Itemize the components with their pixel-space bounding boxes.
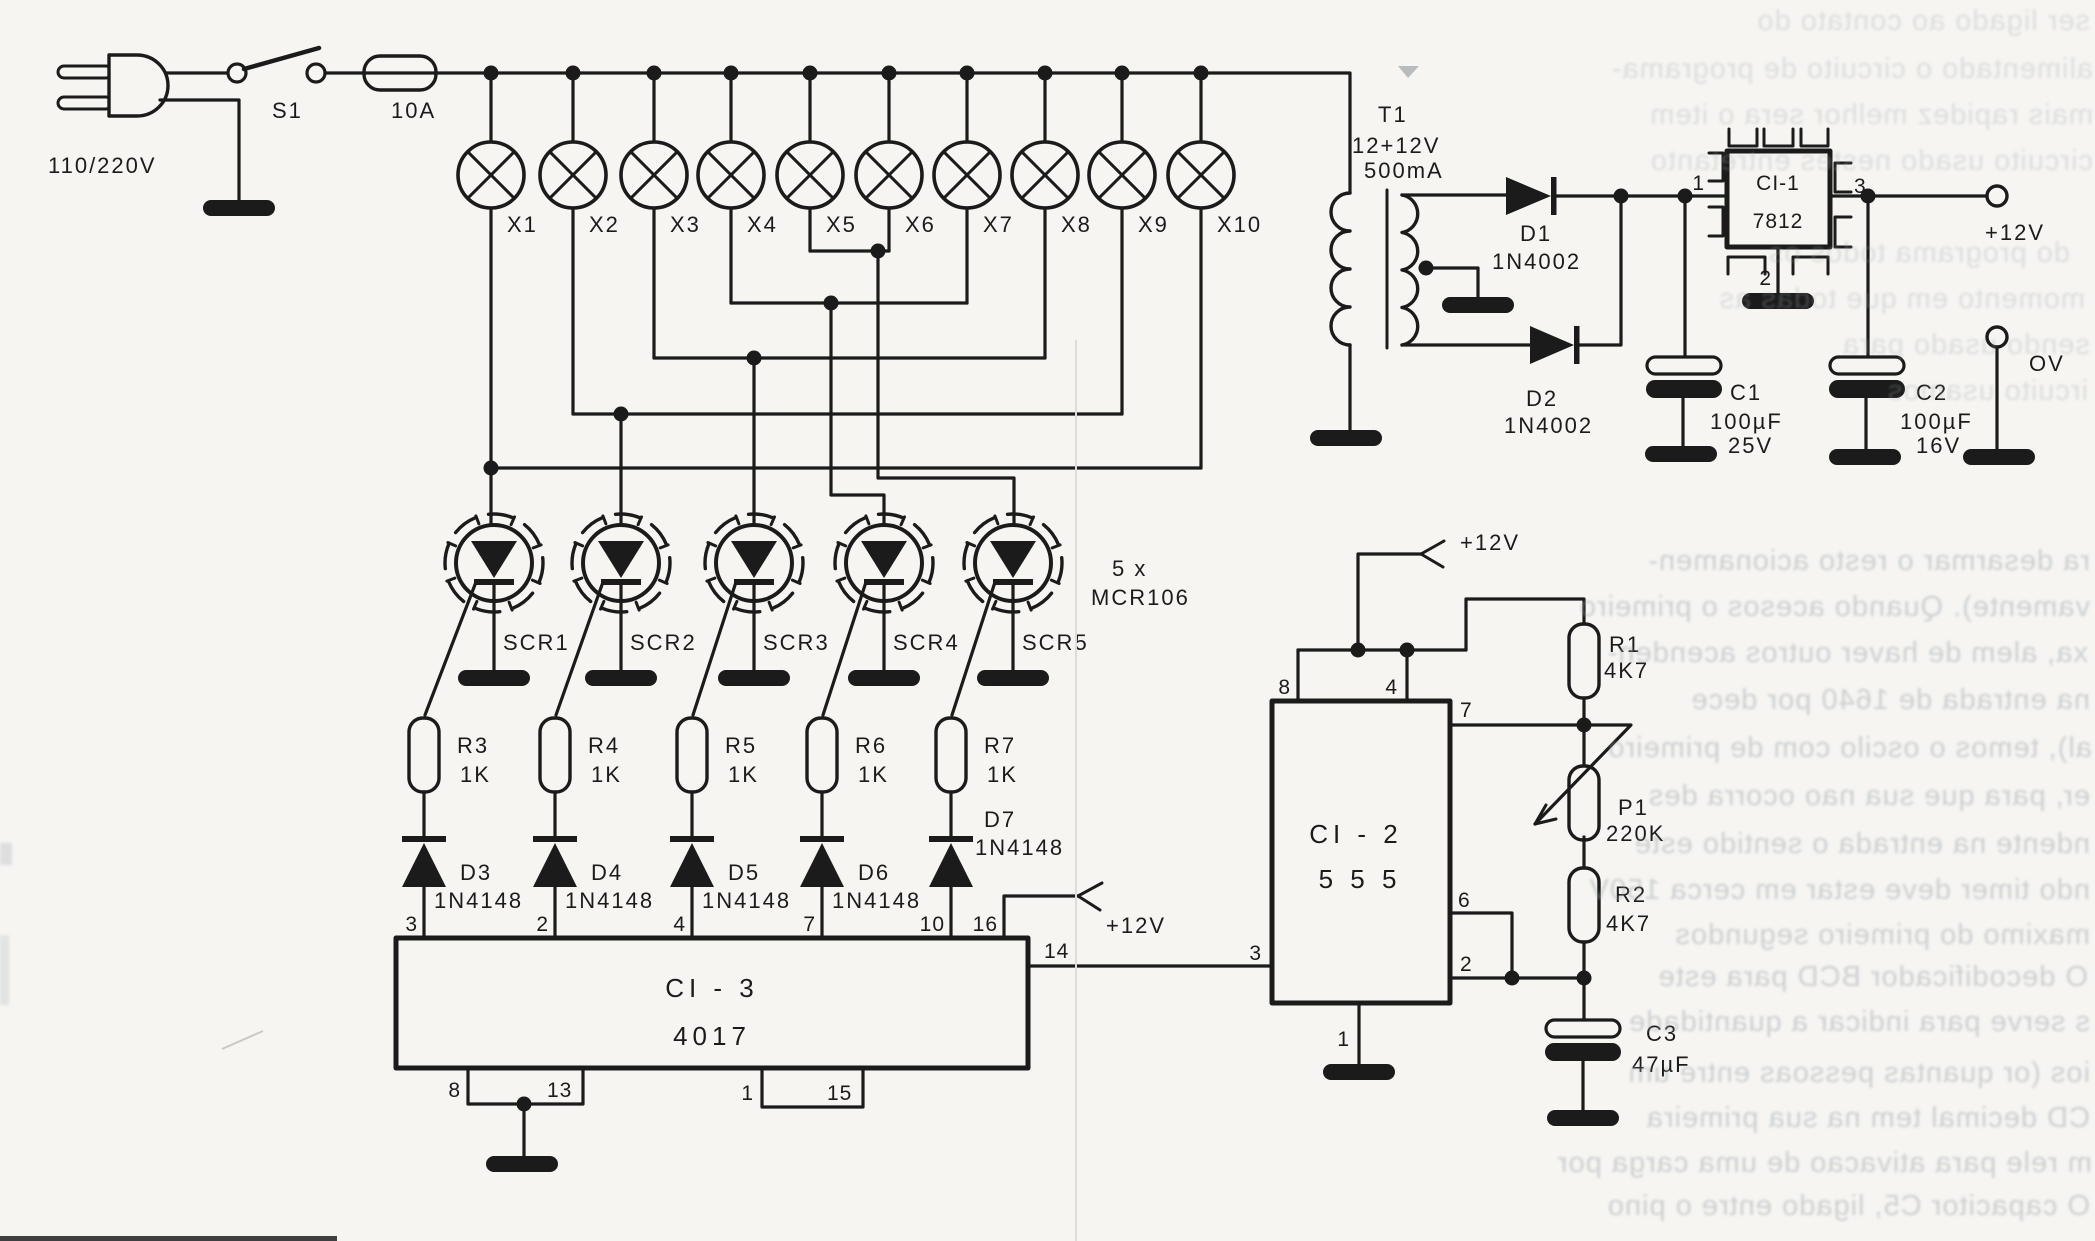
svg-text:1N4148: 1N4148 <box>702 888 791 913</box>
wire: 555 supply rail <box>1298 648 1466 651</box>
IC CI-1 7812 regulator <box>1727 151 1830 247</box>
svg-text:1N4148: 1N4148 <box>975 835 1064 860</box>
scan artifact: bottom page edge <box>0 1236 337 1241</box>
svg-text:1: 1 <box>741 1082 754 1105</box>
node: pin 6 to pin 2 junction <box>1505 971 1520 986</box>
wire: 555 pin 6 <box>1450 913 1512 978</box>
wire: R2 to C3 <box>1582 942 1585 1020</box>
transformer T1 secondary winding <box>1402 195 1418 345</box>
wire: D2 cathode up to rectified rail <box>1579 196 1621 345</box>
svg-text:O decodificador BCD para este: O decodificador BCD para este <box>1658 961 2088 993</box>
wire: bus to lamp X8 <box>1043 73 1046 142</box>
wire: X5/X6 pair bus <box>810 249 889 252</box>
wire: SCR3 gate to R5 <box>693 582 736 715</box>
svg-text:MCR106: MCR106 <box>1091 585 1190 610</box>
diode D5 1N4148 <box>670 836 714 887</box>
wire: X9 down <box>1120 208 1123 414</box>
node: pin 2/6 junction at R2-C3 <box>1577 971 1592 986</box>
wire: X2 down <box>571 208 574 414</box>
node: rectifier output junction <box>1614 189 1629 204</box>
wire: secondary bottom to D2 <box>1402 343 1530 346</box>
lamp X9 <box>1089 142 1155 208</box>
wire: bus to lamp X1 <box>489 73 492 142</box>
svg-text:+12V: +12V <box>1460 530 1520 555</box>
svg-text:SCR2: SCR2 <box>630 630 697 655</box>
lamp X2 <box>540 142 606 208</box>
ground under SCR1 <box>458 670 530 686</box>
svg-text:CD decimal tem na sua primeir: CD decimal tem na sua primeira <box>1646 1102 2090 1134</box>
wire: X10 down <box>1199 208 1202 468</box>
node: bus junction for lamp X1 <box>484 66 499 81</box>
svg-text:R4: R4 <box>588 733 620 758</box>
+12V arrow (pin 16 supply) <box>1078 883 1102 896</box>
ground under SCR5 <box>977 670 1049 686</box>
wire: CI-3 pin 14 to CI-2 pin 3 <box>1028 964 1272 967</box>
wire: center tap to ground <box>1420 268 1478 297</box>
wire: X2/X9 drop to SCR2 <box>619 414 622 540</box>
svg-text:14: 14 <box>1044 940 1069 963</box>
node: C1 junction <box>1678 189 1693 204</box>
node: bus junction for lamp X2 <box>566 66 581 81</box>
lamp X7 <box>934 142 1000 208</box>
svg-text:vamente). Quando acesos o prim: vamente). Quando acesos o primeiro <box>1579 591 2090 623</box>
wire plug neutral to ground <box>160 100 239 200</box>
wire: X4/X7 pair bus <box>731 301 967 304</box>
svg-text:D3: D3 <box>460 860 492 885</box>
svg-text:ircuito usamos: ircuito usamos <box>1887 375 2088 407</box>
svg-text:X3: X3 <box>670 212 701 237</box>
diode D3 1N4148 <box>402 836 446 887</box>
node: bus junction for lamp X4 <box>724 66 739 81</box>
thyristor SCR3 (MCR106) <box>705 514 803 612</box>
wire: D7 to CI-3 pin 10 <box>949 887 952 938</box>
P1 wiper arm <box>1535 725 1631 824</box>
ground under SCR2 <box>585 670 657 686</box>
svg-text:100µF: 100µF <box>1710 409 1783 434</box>
svg-text:xa, alem de haver outros acend: xa, alem de haver outros acenden- <box>1607 637 2088 669</box>
wire: junction to ground <box>522 1104 525 1156</box>
ground under CI-3 <box>486 1156 558 1172</box>
svg-text:1K: 1K <box>728 762 759 787</box>
svg-text:R5: R5 <box>725 733 757 758</box>
svg-text:3: 3 <box>405 913 418 936</box>
wire: bus to lamp X2 <box>571 73 574 142</box>
lamp X4 <box>698 142 764 208</box>
svg-text:5 5 5: 5 5 5 <box>1319 864 1402 894</box>
svg-text:maximo do primeiro segundos: maximo do primeiro segundos <box>1675 919 2090 951</box>
wire: SCR1 gate to R3 <box>425 582 476 715</box>
wire: SCR4 cathode to ground <box>882 584 885 670</box>
wire: 555 pin 7 <box>1450 723 1584 726</box>
wire plug to switch <box>166 71 228 74</box>
wire: bus to lamp X10 <box>1199 73 1202 142</box>
wire: 0V terminal to ground <box>1995 347 1998 449</box>
wire: X1 down to SCR1 anode line <box>489 208 492 540</box>
node: X3/X8 junction <box>747 351 762 366</box>
diode D6 1N4148 <box>800 836 844 887</box>
svg-text:100µF: 100µF <box>1900 409 1973 434</box>
svg-text:4017: 4017 <box>673 1021 751 1051</box>
wire: X8 down <box>1043 208 1046 358</box>
ground under C1 <box>1645 446 1717 462</box>
wire: X4/X7 drop to SCR4 <box>831 303 884 540</box>
wire: +12V rail to C2 <box>1866 196 1869 357</box>
wire: bus to lamp X9 <box>1120 73 1123 142</box>
svg-text:R6: R6 <box>855 733 887 758</box>
node: bus junction for lamp X6 <box>882 66 897 81</box>
node: X1/X10 junction <box>484 461 499 476</box>
scan artifact: gray arrow blot above T1 <box>1398 66 1419 78</box>
wire: SCR2 gate to R4 <box>556 582 603 715</box>
svg-text:D7: D7 <box>984 807 1016 832</box>
wire: D4 to CI-3 pin 2 <box>553 887 556 938</box>
svg-text:D4: D4 <box>591 860 623 885</box>
wire: 555 pin 1 to ground <box>1357 1003 1360 1064</box>
svg-text:D1: D1 <box>1520 221 1552 246</box>
node: bus junction for lamp X3 <box>647 66 662 81</box>
svg-text:4: 4 <box>1385 676 1398 699</box>
svg-text:1N4148: 1N4148 <box>832 888 921 913</box>
wire: R3 to D3 <box>422 792 425 837</box>
wire: C3 to ground <box>1581 1061 1584 1110</box>
svg-text:500mA: 500mA <box>1364 158 1444 183</box>
node: C2 junction <box>1861 189 1876 204</box>
svg-text:8: 8 <box>448 1079 461 1102</box>
P1 wiper arrowhead <box>1535 819 1556 824</box>
svg-text:1N4002: 1N4002 <box>1492 249 1581 274</box>
svg-text:ios (or quantas pessoas entre: ios (or quantas pessoas entre um <box>1628 1057 2090 1089</box>
svg-text:10: 10 <box>920 913 945 936</box>
svg-text:7: 7 <box>803 913 816 936</box>
lamp X6 <box>856 142 922 208</box>
wire: X5/X6 drop to SCR5 <box>878 251 1014 540</box>
svg-text:25V: 25V <box>1728 433 1773 458</box>
svg-text:7812: 7812 <box>1753 210 1804 233</box>
0V output terminal <box>1987 327 2007 347</box>
wire: bus to lamp X4 <box>729 73 732 142</box>
package bracket marks around CI-1 <box>1729 129 1757 146</box>
wire: bus to lamp X6 <box>887 73 890 142</box>
IC CI-2 555 timer <box>1272 701 1450 1003</box>
ground under SCR3 <box>718 670 790 686</box>
svg-text:s serve para indicar a quant: s serve para indicar a quantidade <box>1628 1006 2090 1038</box>
lamp X1 <box>458 142 524 208</box>
wire: bus to lamp X3 <box>652 73 655 142</box>
svg-text:alimentado o circuito de progr: alimentado o circuito de programa- <box>1611 53 2093 85</box>
wire: primary bottom to ground <box>1348 345 1351 430</box>
node: bus junction for lamp X5 <box>803 66 818 81</box>
wire: R5 to D5 <box>690 792 693 837</box>
svg-text:circuito usado nestes entret: circuito usado nestes entretanto <box>1650 145 2093 177</box>
scan artifact: faint scratch <box>222 1031 263 1049</box>
wire switch to fuse <box>325 71 366 74</box>
wire: CI-1 pin 2 to ground <box>1776 247 1779 293</box>
node: +12V feed junction <box>1351 643 1366 658</box>
wire: SCR2 cathode to ground <box>619 584 622 670</box>
svg-text:X5: X5 <box>826 212 857 237</box>
svg-text:110/220V: 110/220V <box>48 153 157 178</box>
svg-text:1K: 1K <box>591 762 622 787</box>
wire: D1 cathode to regulator input <box>1556 194 1727 197</box>
svg-text:mais rapidez melhor sera o i: mais rapidez melhor sera o item <box>1649 99 2093 131</box>
svg-text:X7: X7 <box>983 212 1014 237</box>
svg-text:T1: T1 <box>1378 102 1408 127</box>
svg-text:CI - 2: CI - 2 <box>1309 819 1403 849</box>
svg-text:S1: S1 <box>272 98 303 123</box>
wire: R6 to D6 <box>820 792 823 837</box>
svg-text:X8: X8 <box>1061 212 1092 237</box>
wire: secondary top to D1 <box>1402 193 1506 196</box>
wire: rail to C1 <box>1683 196 1686 357</box>
node: pin 4 junction <box>1400 643 1415 658</box>
svg-text:X10: X10 <box>1217 212 1262 237</box>
wire: R7 to D7 <box>949 792 952 837</box>
svg-text:SCR3: SCR3 <box>763 630 830 655</box>
node: X5/X6 junction <box>871 244 886 259</box>
svg-text:1N4148: 1N4148 <box>565 888 654 913</box>
wire: X3 down <box>652 208 655 358</box>
svg-text:C1: C1 <box>1730 380 1762 405</box>
svg-text:5 x: 5 x <box>1112 556 1147 581</box>
svg-text:15: 15 <box>827 1082 852 1105</box>
wire: X3/X8 drop to SCR3 <box>752 358 755 540</box>
node: X4/X7 junction <box>824 296 839 311</box>
wire: C1 to ground <box>1681 398 1684 446</box>
wire: X6 down <box>887 208 890 251</box>
node: bus junction for lamp X8 <box>1038 66 1053 81</box>
node: pin 7 junction <box>1577 718 1592 733</box>
lamp X8 <box>1012 142 1078 208</box>
svg-text:D5: D5 <box>728 860 760 885</box>
wire: 555 pin 8 up <box>1296 650 1299 701</box>
svg-text:na entrada de 1640 por d: na entrada de 1640 por dece <box>1691 684 2090 716</box>
svg-text:1K: 1K <box>460 762 491 787</box>
node: bus junction for lamp X10 <box>1194 66 1209 81</box>
wire: +12V arrow feed for 555 <box>1358 554 1421 650</box>
wire: SCR5 cathode to ground <box>1011 584 1014 670</box>
svg-text:X4: X4 <box>747 212 778 237</box>
ground under transformer <box>1310 430 1382 446</box>
resistor R4 1K <box>540 718 570 792</box>
svg-text:D2: D2 <box>1526 386 1558 411</box>
wire: SCR1 cathode to ground <box>492 584 495 670</box>
svg-text:CI - 3: CI - 3 <box>665 973 759 1003</box>
wire: X1/X10 pair bus <box>491 466 1201 469</box>
svg-text:1: 1 <box>1337 1028 1350 1051</box>
wire: X4 down <box>729 208 732 303</box>
svg-text:m rele para ativacao de uma ca: m rele para ativacao de uma carga por <box>1557 1147 2092 1179</box>
capacitor C3 47uF <box>1545 1020 1621 1061</box>
wire: X3/X8 pair bus <box>654 356 1045 359</box>
svg-text:8: 8 <box>1278 676 1291 699</box>
diode D4 1N4148 <box>533 836 577 887</box>
ground (mains neutral) <box>203 200 275 216</box>
ground under CI-2 <box>1323 1064 1395 1080</box>
svg-text:+12V: +12V <box>1106 913 1166 938</box>
svg-text:D6: D6 <box>858 860 890 885</box>
svg-text:1N4148: 1N4148 <box>434 888 523 913</box>
svg-text:ndente na entrada o sentido: ndente na entrada o sentido este <box>1634 828 2090 860</box>
fuse F1 10A <box>364 56 436 90</box>
svg-text:SCR4: SCR4 <box>893 630 960 655</box>
wire: SCR3 cathode to ground <box>752 584 755 670</box>
node: X2/X9 junction <box>614 407 629 422</box>
wire: C2 to ground <box>1864 398 1867 449</box>
resistor R6 1K <box>807 718 837 792</box>
capacitor C1 100uF 25V <box>1646 357 1722 398</box>
+12V output terminal <box>1987 186 2007 206</box>
wire: top AC bus to transformer <box>436 73 1350 193</box>
resistor R3 1K <box>409 718 439 792</box>
wire: X5 down <box>808 208 811 251</box>
transformer core <box>1386 190 1389 348</box>
ground under CI-1 <box>1742 293 1814 309</box>
wire: R4 to D4 <box>553 792 556 837</box>
wire: SCR4 gate to R6 <box>823 582 866 715</box>
svg-text:O capacitor C5, ligado entre: O capacitor C5, ligado entre o pino <box>1607 1190 2090 1222</box>
thyristor SCR4 (MCR106) <box>835 514 933 612</box>
wire: CI-3 pins 8 and 13 tied to ground <box>468 1068 583 1104</box>
svg-text:SCR5: SCR5 <box>1022 630 1089 655</box>
svg-text:X6: X6 <box>905 212 936 237</box>
resistor R7 1K <box>936 718 966 792</box>
svg-text:6: 6 <box>1458 889 1471 912</box>
svg-text:16: 16 <box>973 913 998 936</box>
transformer T1 12+12V 500mA primary winding <box>1331 193 1350 345</box>
node: bus junction for lamp X9 <box>1115 66 1130 81</box>
node: center tap <box>1419 261 1434 276</box>
svg-text:1K: 1K <box>858 762 889 787</box>
thyristor SCR5 (MCR106) <box>964 514 1062 612</box>
svg-text:momento em que todas as: momento em que todas as <box>1719 283 2085 315</box>
svg-text:2: 2 <box>1460 953 1473 976</box>
lamp X5 <box>777 142 843 208</box>
wire: R1 to P1 <box>1582 698 1585 766</box>
wire: X2/X9 pair bus <box>573 412 1122 415</box>
capacitor C2 100uF 16V <box>1829 357 1905 398</box>
ground under SCR4 <box>848 670 920 686</box>
ghost smudges on left edge <box>0 843 12 865</box>
svg-text:ra desarmar o resto acionamen: ra desarmar o resto acionamen- <box>1647 545 2090 577</box>
svg-text:13: 13 <box>547 1079 572 1102</box>
wire: X7 down <box>965 208 968 303</box>
svg-text:X1: X1 <box>507 212 538 237</box>
ground at center tap <box>1442 297 1514 313</box>
svg-text:1N4002: 1N4002 <box>1504 413 1593 438</box>
resistor R2 4K7 <box>1569 868 1599 942</box>
ground under C3 <box>1547 1110 1619 1126</box>
wire: 555 pin 2 <box>1450 976 1584 979</box>
wire: P1 to R2 <box>1582 837 1585 868</box>
wire: CI-1 output to +12V terminal <box>1830 194 1987 197</box>
ground under 0V terminal <box>1963 449 2035 465</box>
svg-text:ser ligado ao contato do: ser ligado ao contato do <box>1756 5 2090 37</box>
wire: rail to R1 <box>1466 599 1584 650</box>
wire: SCR5 gate to R7 <box>952 582 995 715</box>
potentiometer P1 220K <box>1569 766 1599 840</box>
switch S1 <box>228 48 325 82</box>
svg-text:7: 7 <box>1460 699 1473 722</box>
wire: bus to lamp X5 <box>808 73 811 142</box>
svg-text:1K: 1K <box>987 762 1018 787</box>
svg-text:3: 3 <box>1249 942 1262 965</box>
svg-text:2: 2 <box>536 913 549 936</box>
diode D7 1N4148 <box>929 836 973 887</box>
svg-text:ndo timer deve estar em cerca: ndo timer deve estar em cerca 150V <box>1589 874 2090 906</box>
svg-text:er, para que sua nao ocorra d: er, para que sua nao ocorra des <box>1648 780 2090 812</box>
wire: D3 to CI-3 pin 3 <box>422 887 425 938</box>
lamp X10 <box>1168 142 1234 208</box>
svg-text:4: 4 <box>673 913 686 936</box>
ground under C2 <box>1829 449 1901 465</box>
svg-text:R7: R7 <box>984 733 1016 758</box>
+12V arrow (555 supply) <box>1421 541 1444 554</box>
diode D1 1N4002 <box>1506 177 1557 215</box>
wire: 555 pin 4 up <box>1405 650 1408 701</box>
svg-text:P1: P1 <box>1618 795 1649 820</box>
node: bus junction for lamp X7 <box>960 66 975 81</box>
wire: CI-3 pins 1 and 15 tied <box>762 1068 863 1107</box>
svg-text:sendo usado para: sendo usado para <box>1842 329 2090 361</box>
svg-text:10A: 10A <box>391 98 436 123</box>
svg-text:SCR1: SCR1 <box>503 630 570 655</box>
svg-text:al), temos o oscilo com de pri: al), temos o oscilo com de primeiro <box>1607 732 2092 764</box>
svg-text:X9: X9 <box>1138 212 1169 237</box>
diode D2 1N4002 <box>1530 326 1580 364</box>
AC plug P1 (110/220V mains plug) <box>58 55 168 116</box>
svg-text:4K7: 4K7 <box>1606 911 1651 936</box>
svg-text:12+12V: 12+12V <box>1352 133 1440 158</box>
wire: bus to lamp X7 <box>965 73 968 142</box>
wire: D5 to CI-3 pin 4 <box>690 887 693 938</box>
wire: CI-3 pin 16 to +12V <box>1004 896 1078 938</box>
resistor R1 4K7 <box>1569 624 1599 698</box>
thyristor SCR1 (MCR106) <box>445 514 543 612</box>
IC CI-3 4017 <box>396 938 1028 1068</box>
svg-text:do programa todos os: do programa todos os <box>1768 237 2070 269</box>
svg-text:R3: R3 <box>457 733 489 758</box>
svg-text:16V: 16V <box>1916 433 1961 458</box>
wire: D6 to CI-3 pin 7 <box>820 887 823 938</box>
resistor R5 1K <box>677 718 707 792</box>
svg-text:X2: X2 <box>589 212 620 237</box>
node: pin8/13 ground junction <box>517 1097 532 1112</box>
lamp X3 <box>621 142 687 208</box>
thyristor SCR2 (MCR106) <box>572 514 670 612</box>
scan artifact: faint column separator <box>1075 340 1077 1241</box>
